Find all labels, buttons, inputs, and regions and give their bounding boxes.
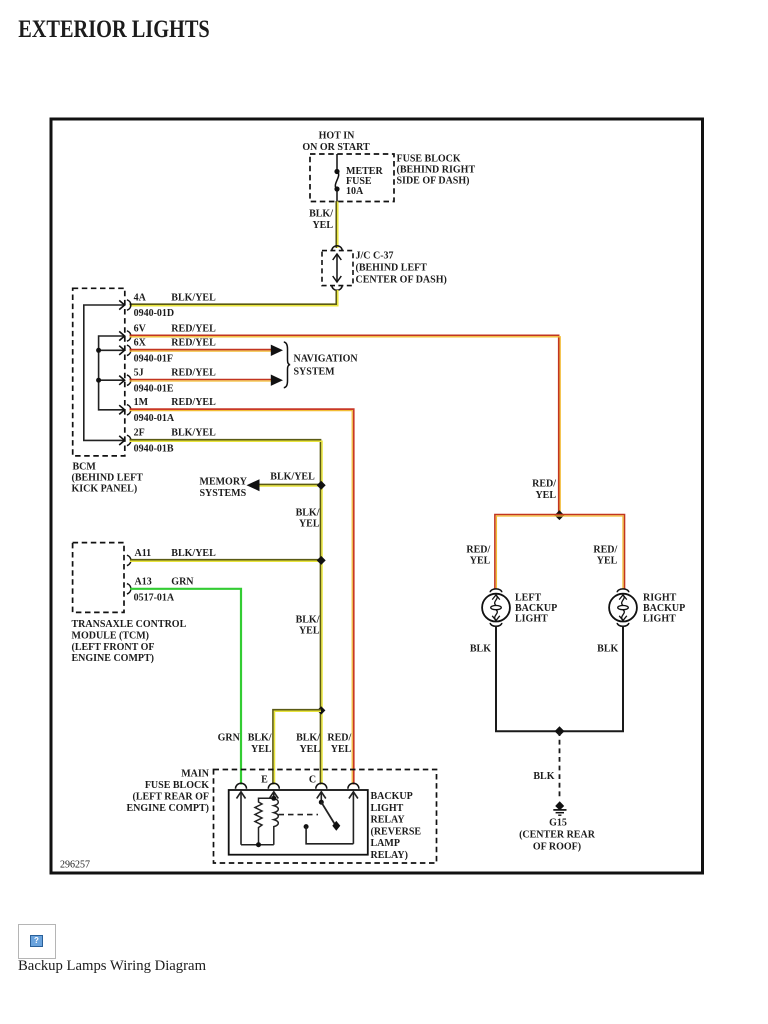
svg-text:E: E xyxy=(261,774,268,785)
wire BLK/YEL 2F down to relay pin C xyxy=(130,440,323,785)
svg-text:EXTERIOR LIGHTS: EXTERIOR LIGHTS xyxy=(18,16,210,43)
BCM internal wiring 4A-2F xyxy=(84,305,125,440)
TCM pin A11 xyxy=(127,548,216,566)
main fuse block dashed box xyxy=(214,770,437,864)
junction node backup light feed xyxy=(555,510,565,520)
svg-text:BLK/: BLK/ xyxy=(296,733,320,744)
BCM pin 5J xyxy=(119,367,216,394)
fuse METER FUSE 10A xyxy=(335,154,338,202)
svg-text:BACKUP: BACKUP xyxy=(643,603,685,614)
svg-text:YEL: YEL xyxy=(331,744,352,755)
wire GRN A13 down to relay xyxy=(130,589,241,785)
mechanical link dashed xyxy=(279,814,319,816)
wire BLK/YEL fuse to J/C C-37 xyxy=(336,201,338,248)
svg-text:RELAY: RELAY xyxy=(371,815,406,826)
svg-text:BLK/: BLK/ xyxy=(296,614,320,625)
svg-text:G15: G15 xyxy=(549,818,567,829)
TCM pin A13 xyxy=(127,576,194,603)
svg-text:LAMP: LAMP xyxy=(371,838,400,849)
junction dot 5J xyxy=(96,378,101,383)
svg-text:0940-01B: 0940-01B xyxy=(134,444,174,455)
svg-text:0940-01E: 0940-01E xyxy=(134,383,174,394)
svg-text:RED/YEL: RED/YEL xyxy=(171,397,216,408)
relay switch arm xyxy=(321,802,335,824)
relay pin E arrow xyxy=(269,792,278,799)
wire RED/YEL 6X to navigation xyxy=(130,350,273,352)
footer caption xyxy=(18,958,206,975)
footer image placeholder icon xyxy=(18,924,56,959)
svg-text:LIGHT: LIGHT xyxy=(643,614,676,625)
svg-text:(LEFT FRONT OF: (LEFT FRONT OF xyxy=(72,642,155,653)
ground G15 xyxy=(519,801,596,852)
svg-text:GRN: GRN xyxy=(218,733,241,744)
junction node ground bus xyxy=(555,726,565,736)
svg-text:FUSE BLOCK: FUSE BLOCK xyxy=(145,780,209,791)
wire RED/YEL 5J to navigation xyxy=(130,380,273,382)
svg-text:RED/: RED/ xyxy=(532,479,556,490)
fuse block (behind right side of dash) dashed box xyxy=(310,154,394,202)
svg-text:SIDE OF DASH): SIDE OF DASH) xyxy=(397,176,470,187)
svg-text:YEL: YEL xyxy=(299,626,320,637)
arrow to navigation (6X) xyxy=(271,345,283,356)
BCM pin 1M xyxy=(119,397,216,424)
svg-text:0940-01D: 0940-01D xyxy=(134,308,175,319)
junction dot 6X xyxy=(96,348,101,353)
svg-text:A11: A11 xyxy=(135,548,152,559)
svg-text:ENGINE COMPT): ENGINE COMPT) xyxy=(127,803,210,814)
junction dot coil top xyxy=(271,796,276,801)
BCM pin 6V xyxy=(119,324,216,342)
relay coil assembly xyxy=(241,798,278,844)
svg-text:BLK/: BLK/ xyxy=(248,733,272,744)
BCM pin 6X xyxy=(119,337,216,364)
svg-text:LIGHT: LIGHT xyxy=(371,803,404,814)
lamp RIGHT BACKUP LIGHT xyxy=(609,589,685,626)
svg-text:(BEHIND LEFT: (BEHIND LEFT xyxy=(72,473,144,484)
junction node memory branch xyxy=(317,481,326,490)
svg-text:RED/: RED/ xyxy=(466,544,490,555)
BCM pin 2F xyxy=(119,428,216,455)
svg-text:(CENTER REAR: (CENTER REAR xyxy=(519,830,596,841)
svg-text:0940-01A: 0940-01A xyxy=(134,413,175,424)
svg-text:4A: 4A xyxy=(134,293,147,304)
junction node A11 xyxy=(317,556,326,565)
svg-text:(BEHIND RIGHT: (BEHIND RIGHT xyxy=(397,165,476,176)
arrow to navigation (5J) xyxy=(271,375,283,386)
resistor (parallel) xyxy=(255,798,274,844)
relay pin 4 (RED) arrow and wire xyxy=(349,792,358,844)
wire BLK/YEL branch to relay pin E xyxy=(273,710,321,785)
svg-text:6X: 6X xyxy=(134,337,147,348)
svg-text:TRANSAXLE CONTROL: TRANSAXLE CONTROL xyxy=(72,619,187,630)
wire BLK/YEL A11 to junction xyxy=(130,560,321,562)
coil xyxy=(274,798,279,844)
wire RED/YEL split to both lamps xyxy=(495,515,625,590)
relay solid box xyxy=(229,790,368,855)
svg-text:296257: 296257 xyxy=(60,860,90,871)
bottom bus xyxy=(241,844,274,846)
svg-text:BCM: BCM xyxy=(73,461,97,472)
brace navigation system xyxy=(284,342,290,388)
svg-text:CENTER OF DASH): CENTER OF DASH) xyxy=(356,274,447,285)
wire RED/YEL 6V to right drop xyxy=(130,335,561,515)
svg-text:ENGINE COMPT): ENGINE COMPT) xyxy=(72,653,155,664)
svg-text:BLK: BLK xyxy=(470,644,491,655)
svg-text:BLK/YEL: BLK/YEL xyxy=(171,548,216,559)
svg-text:J/C C-37: J/C C-37 xyxy=(356,250,394,261)
svg-text:SYSTEM: SYSTEM xyxy=(294,367,336,378)
wire RED/YEL 1M down to relay xyxy=(130,409,354,784)
junction node relay feed split xyxy=(317,706,325,714)
svg-text:A13: A13 xyxy=(135,576,152,587)
svg-text:YEL: YEL xyxy=(251,744,272,755)
svg-text:SYSTEMS: SYSTEMS xyxy=(200,488,247,499)
svg-text:NAVIGATION: NAVIGATION xyxy=(294,354,359,365)
svg-text:MEMORY: MEMORY xyxy=(200,477,248,488)
svg-text:LIGHT: LIGHT xyxy=(515,614,548,625)
svg-text:RIGHT: RIGHT xyxy=(643,592,677,603)
junction dot resistor bottom xyxy=(256,842,261,847)
svg-text:C: C xyxy=(309,774,316,785)
svg-text:0940-01F: 0940-01F xyxy=(134,354,173,365)
svg-text:BLK/YEL: BLK/YEL xyxy=(171,293,216,304)
svg-text:(REVERSE: (REVERSE xyxy=(371,826,422,837)
svg-text:KICK PANEL): KICK PANEL) xyxy=(72,484,138,495)
wire BLK lamp grounds xyxy=(496,626,623,731)
svg-text:RED/YEL: RED/YEL xyxy=(171,337,216,348)
svg-text:HOT IN: HOT IN xyxy=(319,131,355,142)
svg-text:BLK/: BLK/ xyxy=(309,209,333,220)
svg-text:YEL: YEL xyxy=(299,519,320,530)
svg-text:RED/YEL: RED/YEL xyxy=(171,367,216,378)
relay pin connector arcs xyxy=(236,783,247,788)
svg-text:6V: 6V xyxy=(134,324,147,335)
svg-text:0517-01A: 0517-01A xyxy=(134,592,175,603)
relay switch pivot xyxy=(319,800,324,805)
relay fixed contact xyxy=(304,824,309,829)
arrow to memory systems xyxy=(247,479,260,491)
svg-text:10A: 10A xyxy=(346,186,364,197)
junction connector J/C C-37 xyxy=(332,246,343,251)
BCM dashed box xyxy=(73,288,125,456)
svg-text:FUSE BLOCK: FUSE BLOCK xyxy=(397,154,461,165)
svg-text:ON OR START: ON OR START xyxy=(302,142,370,153)
svg-text:BACKUP: BACKUP xyxy=(371,791,413,802)
BCM pin 4A xyxy=(119,293,216,320)
svg-text:RED/: RED/ xyxy=(593,544,617,555)
svg-text:BLK: BLK xyxy=(597,644,618,655)
svg-text:LEFT: LEFT xyxy=(515,592,541,603)
svg-text:YEL: YEL xyxy=(597,556,618,567)
svg-text:(LEFT REAR OF: (LEFT REAR OF xyxy=(133,791,210,802)
relay pin 1 (GRN) arrow and wire xyxy=(237,792,246,845)
wire BLK/YEL to memory systems xyxy=(252,485,321,487)
svg-text:YEL: YEL xyxy=(299,744,320,755)
svg-text:BLK/YEL: BLK/YEL xyxy=(171,428,216,439)
svg-text:YEL: YEL xyxy=(470,556,491,567)
svg-text:GRN: GRN xyxy=(171,576,194,587)
svg-text:RELAY): RELAY) xyxy=(371,850,408,861)
svg-text:BLK/: BLK/ xyxy=(296,507,320,518)
svg-text:OF ROOF): OF ROOF) xyxy=(533,842,581,853)
svg-text:RED/YEL: RED/YEL xyxy=(171,324,216,335)
relay pin C arrow xyxy=(317,792,326,803)
svg-text:YEL: YEL xyxy=(535,490,556,501)
svg-text:YEL: YEL xyxy=(312,220,333,231)
border frame xyxy=(51,119,703,873)
svg-text:(BEHIND LEFT: (BEHIND LEFT xyxy=(356,262,428,273)
svg-text:MODULE (TCM): MODULE (TCM) xyxy=(72,630,150,641)
wire BLK dashed to G15 xyxy=(559,731,561,799)
svg-text:BLK: BLK xyxy=(533,771,554,782)
svg-text:1M: 1M xyxy=(134,397,149,408)
wire BLK/YEL J/C to BCM pin 4A xyxy=(130,290,338,306)
svg-text:MAIN: MAIN xyxy=(181,769,210,780)
svg-text:BACKUP: BACKUP xyxy=(515,603,557,614)
svg-text:2F: 2F xyxy=(134,428,145,439)
TCM dashed box xyxy=(73,543,124,613)
svg-text:BLK/YEL: BLK/YEL xyxy=(270,471,315,482)
svg-text:5J: 5J xyxy=(134,367,144,378)
lamp LEFT BACKUP LIGHT xyxy=(482,589,557,626)
svg-text:RED/: RED/ xyxy=(327,733,351,744)
